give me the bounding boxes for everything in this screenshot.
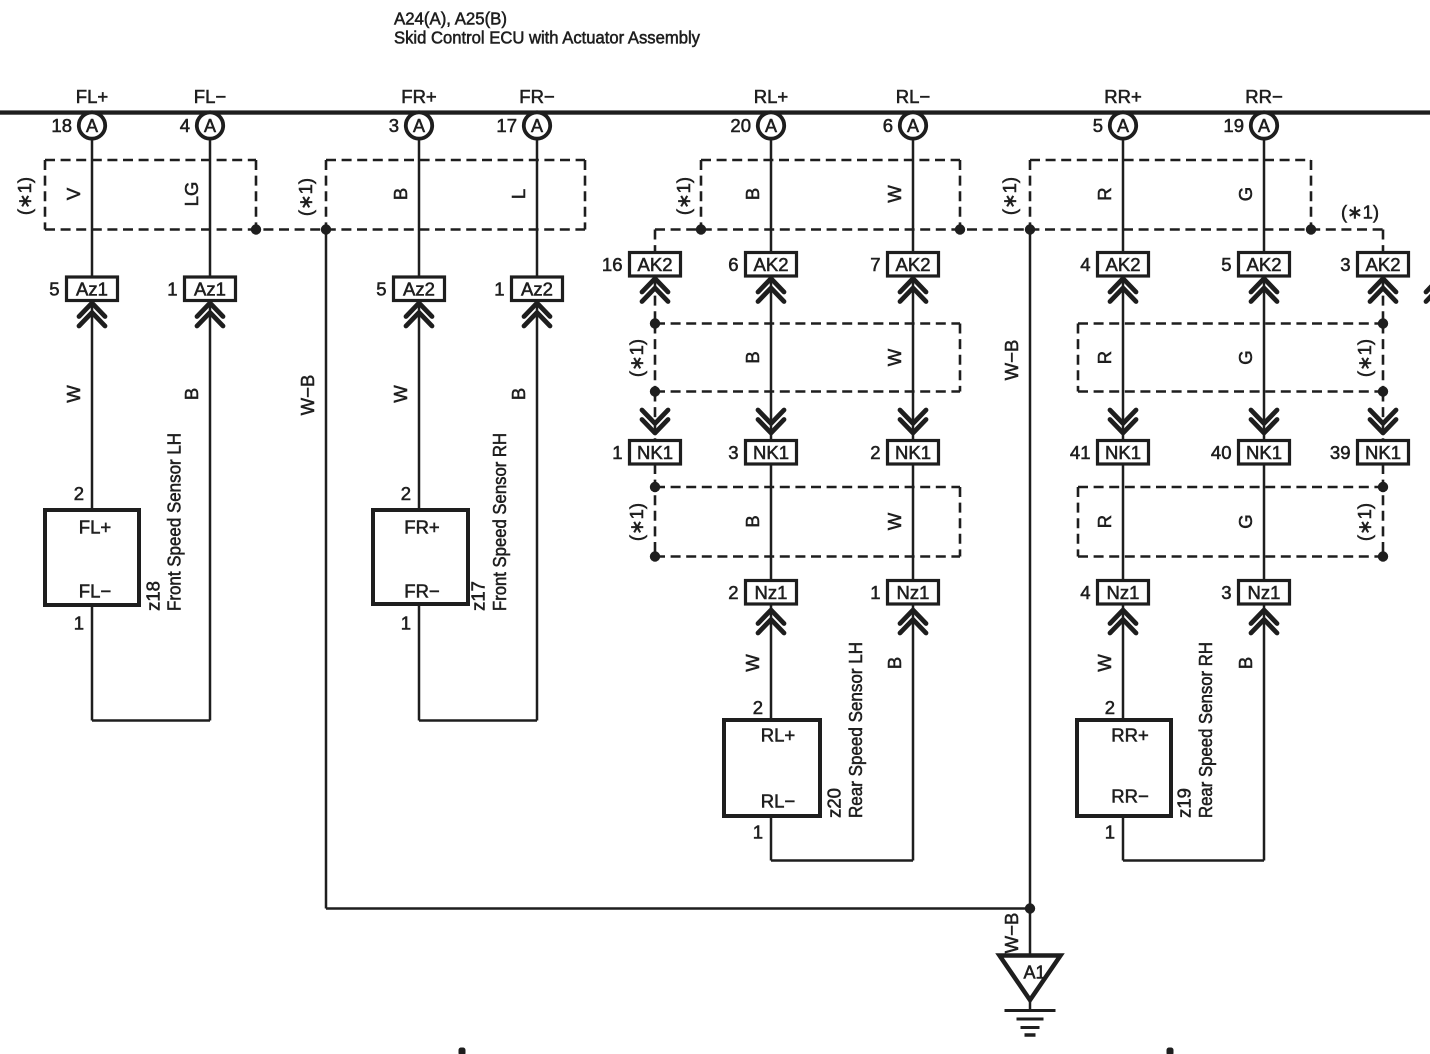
svg-text:Az1: Az1 [76,278,108,299]
svg-text:2: 2 [401,483,411,504]
svg-text:A: A [765,116,777,136]
svg-text:NK1: NK1 [1105,442,1141,463]
svg-text:Az1: Az1 [194,278,226,299]
svg-text:W: W [1094,654,1115,672]
svg-text:1: 1 [167,278,177,299]
svg-text:1: 1 [74,613,84,634]
svg-text:41: 41 [1070,442,1091,463]
svg-text:FR+: FR+ [404,517,439,538]
svg-text:R: R [1094,351,1115,364]
svg-text:B: B [1235,657,1256,669]
svg-text:1: 1 [401,613,411,634]
svg-text:AK2: AK2 [896,254,931,275]
svg-text:Rear Speed Sensor RH: Rear Speed Sensor RH [1195,642,1216,818]
svg-text:z18: z18 [143,581,164,611]
svg-text:FL+: FL+ [76,86,108,107]
svg-text:AK2: AK2 [1247,254,1282,275]
svg-text:4: 4 [1080,254,1090,275]
svg-text:7: 7 [870,254,880,275]
svg-text:16: 16 [602,254,623,275]
svg-text:Nz1: Nz1 [755,582,788,603]
svg-text:5: 5 [49,278,59,299]
svg-text:LG: LG [181,182,202,207]
svg-text:(∗1): (∗1) [626,503,647,541]
svg-text:2: 2 [753,697,763,718]
svg-text:W−B: W−B [1001,913,1022,954]
svg-text:3: 3 [1221,582,1231,603]
svg-text:2: 2 [74,483,84,504]
svg-text:W−B: W−B [1001,340,1022,381]
svg-text:2: 2 [870,442,880,463]
svg-text:6: 6 [728,254,738,275]
svg-text:B: B [742,515,763,527]
svg-text:FR+: FR+ [401,86,436,107]
svg-text:3: 3 [1340,254,1350,275]
svg-text:L: L [508,189,529,199]
svg-text:Az2: Az2 [521,278,553,299]
svg-text:W: W [884,185,905,203]
svg-text:B: B [742,188,763,200]
svg-text:18: 18 [51,115,72,136]
svg-text:RL+: RL+ [761,725,795,746]
svg-text:(∗1): (∗1) [1341,202,1379,223]
svg-text:4: 4 [1080,582,1090,603]
svg-text:z17: z17 [468,581,489,611]
svg-text:FR−: FR− [519,86,554,107]
svg-text:B: B [884,657,905,669]
svg-text:W−B: W−B [297,375,318,416]
svg-text:NK1: NK1 [1246,442,1282,463]
svg-text:39: 39 [1330,442,1351,463]
svg-text:19: 19 [1223,115,1244,136]
svg-text:A: A [907,116,919,136]
svg-text:Nz1: Nz1 [1107,582,1140,603]
svg-text:AK2: AK2 [754,254,789,275]
svg-text:5: 5 [1093,115,1103,136]
svg-text:RL+: RL+ [754,86,788,107]
svg-text:R: R [1094,187,1115,200]
svg-text:4: 4 [180,115,190,136]
svg-text:5: 5 [1221,254,1231,275]
svg-text:G: G [1235,514,1256,528]
svg-text:W: W [884,512,905,530]
svg-text:Front Speed Sensor LH: Front Speed Sensor LH [164,433,185,611]
svg-text:W: W [390,385,411,403]
svg-text:(∗1): (∗1) [999,177,1020,215]
svg-text:R: R [1094,515,1115,528]
svg-text:B: B [181,388,202,400]
svg-text:Az2: Az2 [403,278,435,299]
svg-text:A: A [204,116,216,136]
svg-text:AK2: AK2 [1366,254,1401,275]
svg-text:40: 40 [1211,442,1232,463]
svg-text:2: 2 [728,582,738,603]
svg-text:RL−: RL− [761,791,795,812]
svg-text:W: W [742,654,763,672]
svg-text:A: A [531,116,543,136]
svg-text:3: 3 [389,115,399,136]
svg-text:RR+: RR+ [1104,86,1142,107]
svg-text:(∗1): (∗1) [295,178,316,216]
svg-text:A1: A1 [1023,963,1045,983]
svg-text:A24(A), A25(B): A24(A), A25(B) [394,9,507,29]
svg-text:RR−: RR− [1111,786,1149,807]
svg-text:G: G [1235,350,1256,364]
svg-text:G: G [1235,187,1256,201]
svg-text:NK1: NK1 [637,442,673,463]
svg-text:RR−: RR− [1245,86,1283,107]
svg-text:1: 1 [612,442,622,463]
svg-text:NK1: NK1 [1365,442,1401,463]
svg-text:1: 1 [753,822,763,843]
svg-text:A: A [86,116,98,136]
svg-text:z20: z20 [824,788,845,818]
svg-text:6: 6 [883,115,893,136]
svg-text:(∗1): (∗1) [1354,339,1375,377]
svg-text:A: A [1258,116,1270,136]
svg-text:3: 3 [728,442,738,463]
svg-text:B: B [508,388,529,400]
svg-text:W: W [884,348,905,366]
svg-text:A: A [1117,116,1129,136]
svg-text:1: 1 [494,278,504,299]
svg-text:(∗1): (∗1) [14,177,35,215]
svg-text:Front Speed Sensor RH: Front Speed Sensor RH [489,433,510,611]
svg-text:z19: z19 [1174,788,1195,818]
svg-text:NK1: NK1 [895,442,931,463]
svg-text:Skid Control ECU with Actuator: Skid Control ECU with Actuator Assembly [394,28,700,48]
svg-text:W: W [63,385,84,403]
svg-text:RL−: RL− [896,86,930,107]
svg-text:2: 2 [1105,697,1115,718]
svg-text:B: B [742,351,763,363]
svg-text:AK2: AK2 [638,254,673,275]
svg-text:Nz1: Nz1 [897,582,930,603]
svg-text:FR−: FR− [404,581,439,602]
svg-text:FL+: FL+ [79,517,111,538]
svg-text:20: 20 [730,115,751,136]
svg-text:Rear Speed Sensor LH: Rear Speed Sensor LH [845,642,866,818]
svg-text:AK2: AK2 [1106,254,1141,275]
svg-text:RR+: RR+ [1111,725,1149,746]
svg-text:NK1: NK1 [753,442,789,463]
svg-text:Nz1: Nz1 [1248,582,1281,603]
svg-text:B: B [390,188,411,200]
svg-text:(∗1): (∗1) [1354,503,1375,541]
svg-text:(∗1): (∗1) [673,177,694,215]
svg-text:1: 1 [870,582,880,603]
svg-text:(∗1): (∗1) [626,339,647,377]
svg-text:5: 5 [376,278,386,299]
svg-text:A: A [413,116,425,136]
svg-text:V: V [63,187,84,200]
svg-text:FL−: FL− [194,86,226,107]
svg-text:FL−: FL− [79,581,111,602]
svg-text:17: 17 [496,115,517,136]
svg-text:1: 1 [1105,822,1115,843]
